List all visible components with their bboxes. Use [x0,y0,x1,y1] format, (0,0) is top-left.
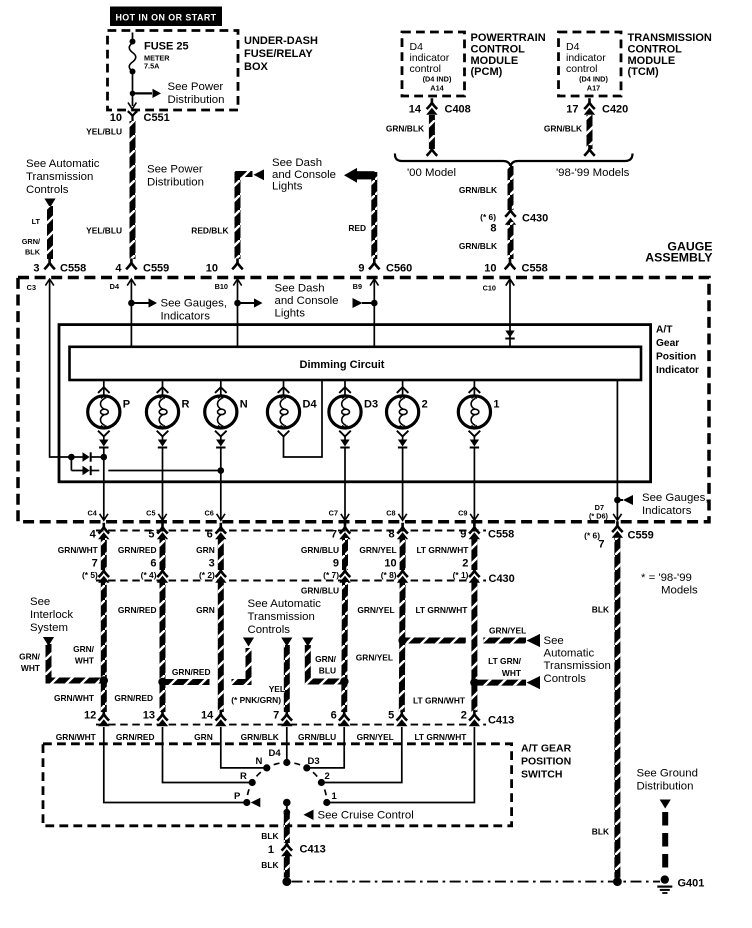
lamp D4 [267,380,317,436]
fuse F25 element [129,43,136,75]
svg-text:RED: RED [348,223,366,233]
label BLK lower [592,827,609,837]
cavity label D7 (* D6) [589,503,609,521]
svg-text:GRN/BLK: GRN/BLK [241,732,279,742]
wire D3 column C430-C413 [341,582,348,712]
svg-text:C558: C558 [488,529,514,541]
svg-text:Position: Position [656,352,696,363]
switch rotor common dot [283,799,291,807]
ground dash-dot line [292,881,661,883]
diode under lamp 2 [398,436,407,520]
wire N column C430-C413 [218,582,224,712]
A/T gear position indicator box [59,325,651,482]
ground symbol G401 [657,875,672,893]
svg-text:CONTROL: CONTROL [471,43,526,55]
svg-text:MODULE: MODULE [628,55,676,67]
svg-text:POWERTRAIN: POWERTRAIN [471,32,546,44]
svg-text:3: 3 [33,263,39,275]
svg-text:B10: B10 [215,282,228,291]
wire B10 to dimming circuit [234,279,241,346]
junction dot overlay P [100,676,108,684]
label GRN/WHT right of interlock wire [73,644,95,666]
svg-text:FUSE 25: FUSE 25 [144,41,189,53]
lamp 2 [387,380,428,436]
svg-text:C558: C558 [60,263,86,275]
svg-text:GRN/BLU: GRN/BLU [298,732,336,742]
svg-text:C5: C5 [146,509,155,518]
wire to R contact [163,727,250,783]
wire LT GRN/BLK to C558 pin 3 [47,206,53,259]
label see automatic transmission controls right [544,635,611,685]
wire GRN/YEL column C430-C413 [399,582,406,712]
svg-text:SWITCH: SWITCH [521,769,562,781]
svg-text:See Dash: See Dash [272,157,322,169]
svg-text:14: 14 [201,710,214,722]
connector line C558 lower [96,530,486,532]
cavity label C5 [146,509,155,518]
svg-text:BOX: BOX [244,61,269,73]
wire BLK C413 to ground junction [284,856,290,878]
label see dash and console lights top [272,157,336,193]
svg-text:(* 1): (* 1) [453,570,469,580]
label GRN/BLK left [386,124,424,134]
svg-text:control: control [566,63,598,75]
svg-text:GRN/RED: GRN/RED [118,605,157,615]
svg-text:(* 8): (* 8) [381,570,397,580]
label 00 Model [407,167,456,179]
label cavity 3 (* 2) [199,558,215,581]
svg-text:and Console: and Console [275,295,339,307]
label G401 [678,878,705,890]
label 98-99 Models [556,167,630,179]
wire LT GRN/WHT column C430-C413 [471,582,478,712]
ground distribution label [637,768,698,793]
label cavity 7 (* 5) [82,558,98,581]
svg-text:GRN/YEL: GRN/YEL [357,732,394,742]
svg-text:GRN/YEL: GRN/YEL [357,605,394,615]
connector C558 cavity 4 [90,523,110,541]
svg-text:9: 9 [333,558,339,570]
label see automatic transmission controls middle [248,598,322,636]
svg-text:Distribution: Distribution [147,177,204,189]
cavity label C10 [483,279,515,292]
connector C559 at gauge border [584,521,654,550]
svg-text:LT GRN/WHT: LT GRN/WHT [414,732,467,742]
svg-text:GRN/RED: GRN/RED [114,693,153,703]
switch contact P [234,791,250,806]
connector C430 glyph [339,566,350,583]
svg-text:D3: D3 [308,756,320,767]
label TRANSMISSION CONTROL MODULE (TCM) [628,32,712,78]
svg-text:2: 2 [462,558,468,570]
svg-text:14: 14 [409,104,422,116]
svg-text:C430: C430 [522,213,548,225]
connector C420 pin 17 [566,98,628,115]
label GRN/WHT below junction [54,693,95,703]
dashed BLK wire to G401 [662,812,668,874]
svg-text:1: 1 [268,844,274,856]
wire RED down to pin 9 [371,172,377,259]
svg-text:7.5A: 7.5A [144,62,160,71]
lamp 1 [458,380,499,436]
svg-text:7: 7 [598,539,604,551]
svg-text:6: 6 [150,558,156,570]
label POWERTRAIN CONTROL MODULE (PCM) [471,32,546,78]
svg-text:7: 7 [273,710,279,722]
wire to 2 contact [325,727,402,783]
svg-text:C559: C559 [143,263,169,275]
label GRN/WHT [58,545,99,555]
svg-text:2: 2 [422,399,428,411]
svg-text:A/T GEAR: A/T GEAR [521,743,572,755]
svg-text:See Automatic: See Automatic [248,598,322,610]
wire C10 to dimming circuit with diode [506,279,514,346]
connector C408 pin 14 [409,98,471,115]
connector C558 pin 10 right [484,259,548,275]
svg-text:(* D6): (* D6) [589,512,609,521]
svg-text:A/T: A/T [656,325,673,336]
wire BLK switch to C413 [284,812,290,843]
connector C413 cavity 12 [84,710,109,727]
svg-text:GRN/BLK: GRN/BLK [459,241,497,251]
see dash and console lights arrow (B10) [238,283,339,320]
svg-text:C4: C4 [87,509,97,518]
label LT GRN/WHT below dot [413,696,466,706]
label GRN/YEL below C430 [357,605,394,615]
svg-text:10: 10 [206,263,218,275]
label RED [348,223,366,233]
svg-text:UNDER-DASH: UNDER-DASH [244,35,318,47]
svg-text:GRN/: GRN/ [22,237,40,246]
label A/T Gear Position Indicator [656,325,699,377]
svg-text:G401: G401 [678,878,705,890]
connector C558 cavity 5 [148,523,168,541]
exit arrows at gauge bottom border [100,514,622,521]
label GRN/BLU at arrow3 [315,654,337,676]
connector C430 in-line top [480,212,548,235]
svg-text:Distribution: Distribution [637,781,694,793]
svg-text:2: 2 [325,771,330,782]
connector C551 [110,111,170,124]
diode under lamp R [158,436,167,520]
svg-text:GRN/YEL: GRN/YEL [359,545,396,555]
lamp P [88,380,130,436]
svg-text:C413: C413 [300,844,326,856]
label Dimming Circuit [300,359,385,371]
wire segment [160,538,166,570]
cavity label C9 [458,509,467,518]
svg-text:Distribution: Distribution [168,94,225,106]
wire segment [218,538,224,570]
svg-text:Indicator: Indicator [656,365,699,376]
label RED/BLK [191,226,228,236]
svg-text:C6: C6 [204,509,213,518]
svg-text:ASSEMBLY: ASSEMBLY [645,251,712,265]
svg-text:D3: D3 [364,399,378,411]
svg-text:LT GRN/WHT: LT GRN/WHT [416,545,469,555]
svg-text:(D4 IND): (D4 IND) [579,75,608,84]
svg-text:12: 12 [84,710,96,722]
svg-text:See Power: See Power [168,81,224,93]
svg-text:YEL/BLU: YEL/BLU [86,226,122,236]
see power distribution arrow [133,81,225,106]
connector C430 glyph [215,566,226,583]
label see automatic transmission controls top-left [26,158,100,196]
svg-text:Indicators: Indicators [161,311,211,323]
svg-text:C10: C10 [483,284,496,293]
label GRN/YEL at branch [489,626,526,636]
switch contact N [256,756,271,772]
ATC arrow 1 [243,638,254,647]
svg-text:GRN/BLK: GRN/BLK [459,185,497,195]
switch contact 2 [318,771,330,786]
svg-text:and Console: and Console [272,169,336,181]
svg-text:GRN: GRN [194,732,213,742]
label GRN below C430 [196,605,215,615]
connector C413 cavity 6 [331,710,350,727]
label LT GRN/WHT at branch [488,656,522,678]
arrow down at fuse box exit [128,103,136,110]
label cavity 6 (* 4) [141,558,157,581]
svg-text:A17: A17 [587,84,600,93]
svg-text:(* 2): (* 2) [199,570,215,580]
wire segment [400,538,406,570]
wire P column C430-C413 [100,582,107,712]
svg-text:Lights: Lights [275,307,306,319]
label GRN/BLU [301,545,339,555]
interlock arrow [43,637,54,646]
powertrain control module box [402,32,465,96]
svg-text:D4: D4 [110,282,120,291]
wire YEL/BLU C551 to C559 pin 4 [130,121,136,259]
svg-text:C558: C558 [522,263,548,275]
connector C413 cavity 2 [461,710,480,727]
svg-text:BLK: BLK [261,860,278,870]
connector C558 cavity 6 [207,523,227,541]
TCM inner label D4 indicator control [566,41,608,93]
connector C559 pin 4 [115,259,169,275]
svg-text:N: N [256,756,263,767]
connector pin 10 B10 [206,259,243,275]
label cavity 9 (* 7) [323,558,339,581]
dimming circuit box [70,347,642,380]
svg-text:B9: B9 [353,282,362,291]
svg-text:9: 9 [460,529,466,541]
svg-text:LT GRN/: LT GRN/ [488,656,522,666]
svg-text:C408: C408 [445,104,471,116]
svg-text:8: 8 [388,529,394,541]
svg-text:See: See [544,635,564,647]
label GAUGE ASSEMBLY [645,239,712,264]
wire segment [471,538,477,570]
wire pin4 to dimming circuit [128,279,135,346]
switch contact arc [247,763,327,803]
svg-text:See Gauges,: See Gauges, [161,298,228,310]
connector C413 cavity 7 [273,710,292,727]
cavity label C6 [204,509,213,518]
connector C558 cavity 9 [460,523,480,541]
connector C558 cavity 7 [331,523,351,541]
wire YEL ATC arrow2 to C413-7 [284,645,290,712]
svg-text:WHT: WHT [502,668,522,678]
arrow from interlock-ATC down [44,199,55,208]
label LT GRN/BLK [22,217,41,257]
wire GRN/RED R junction to ATC arrow 1 [163,648,249,682]
svg-text:(* 5): (* 5) [82,570,98,580]
label cavity 2 (* 1) [453,558,469,581]
svg-text:GRN/WHT: GRN/WHT [54,693,95,703]
label * = 98-99 Models [641,572,698,597]
svg-text:R: R [182,399,190,411]
svg-text:D4: D4 [269,748,282,759]
wire GRN/BLK from TCM [587,115,593,149]
diode at C10 [505,331,514,339]
diode under lamp N [216,436,225,520]
connector C413 pin 1 [268,840,326,857]
svg-text:C430: C430 [489,573,515,585]
svg-text:* = '98-'99: * = '98-'99 [641,572,692,584]
svg-text:See Power: See Power [147,164,203,176]
svg-text:5: 5 [388,710,394,722]
label GRN/YEL [359,545,396,555]
svg-text:7: 7 [331,529,337,541]
svg-text:(TCM): (TCM) [628,66,659,78]
svg-text:GRN/RED: GRN/RED [116,732,155,742]
svg-text:(* 4): (* 4) [141,570,157,580]
svg-text:10: 10 [110,112,122,124]
junction dot overlay R [158,678,166,686]
svg-text:Controls: Controls [26,184,69,196]
svg-text:GRN/: GRN/ [19,652,41,662]
svg-text:6: 6 [207,529,213,541]
connector C430 glyph [157,566,168,583]
connector C430 glyph [98,566,109,583]
see cruise control arrow [304,810,414,822]
junction dot overlay D3 column [340,677,348,685]
wire segment [101,538,107,570]
svg-text:9: 9 [358,263,364,275]
svg-text:P: P [123,399,130,411]
wire RED/BLK pin10 up and left arrow [238,174,253,259]
diode under lamp P [99,436,108,520]
svg-text:4: 4 [115,263,122,275]
wire to P contact [104,727,244,803]
svg-text:See Gauges,: See Gauges, [642,492,709,504]
svg-text:BLK: BLK [25,248,41,257]
connector C430 glyph [397,566,408,583]
lamp R [146,380,189,436]
svg-text:Automatic: Automatic [544,648,595,660]
wire GRN/BLK brace to C430 [508,166,514,210]
svg-text:POSITION: POSITION [521,756,571,768]
label GRN/WHT below C413 [56,732,97,742]
gauge assembly dashed border [18,278,709,522]
wire fuse to C551 with branch [130,72,136,107]
svg-text:HOT IN ON OR START: HOT IN ON OR START [115,12,216,22]
wire dimming to D7 column [614,380,621,519]
label GRN/RED below C430 [118,605,157,615]
svg-text:GRN/YEL: GRN/YEL [356,653,393,663]
svg-text:8: 8 [490,223,496,235]
label FUSE 25 METER 7.5A [144,41,189,71]
svg-text:YEL: YEL [269,684,285,694]
svg-text:GRN/: GRN/ [315,654,337,664]
label BLK upper [592,605,609,615]
A/T gear position switch dashed box [43,744,512,826]
svg-text:(* 6): (* 6) [480,212,496,222]
label YEL (* PNK/GRN) [231,684,285,705]
svg-text:LT: LT [32,217,41,226]
connector C558 cavity 8 [388,523,408,541]
wire segment [342,538,348,570]
svg-text:3: 3 [209,558,215,570]
svg-text:BLU: BLU [319,666,336,676]
connector C430 glyph [469,566,480,583]
svg-text:C7: C7 [329,509,338,518]
svg-text:C9: C9 [458,509,467,518]
svg-text:D4: D4 [303,399,318,411]
svg-text:Indicators: Indicators [642,505,692,517]
svg-text:Interlock: Interlock [30,609,73,621]
svg-text:System: System [30,622,68,634]
svg-text:Controls: Controls [248,624,291,636]
svg-text:5: 5 [148,529,154,541]
wire R column C430-C413 [159,582,166,712]
wire GRN/WHT interlock to P junction [49,644,104,681]
switch common wire down [283,803,290,816]
switch contact D3 [303,756,319,772]
connector C560 pin 9 [358,259,412,275]
svg-text:MODULE: MODULE [471,55,519,67]
connector C413 cavity 5 [388,710,407,727]
svg-text:A14: A14 [430,84,444,93]
svg-text:1: 1 [493,399,499,411]
wire GRN/BLK C430 to C558 pin 10 [508,222,514,259]
connector C413 cavity 14 [201,710,226,727]
cavity label C3 [27,279,54,292]
connector line C413 [96,724,486,726]
svg-text:13: 13 [143,710,155,722]
label GRN [196,545,215,555]
svg-text:CONTROL: CONTROL [628,43,683,55]
label GRN/BLK below C430 [459,241,497,251]
cavity label C7 [329,509,338,518]
svg-text:GRN/WHT: GRN/WHT [56,732,97,742]
svg-text:GRN/BLU: GRN/BLU [301,545,339,555]
svg-text:GRN/YEL: GRN/YEL [489,626,526,636]
ATC arrow 2 [281,638,292,647]
label GRN/RED below C413 [116,732,155,742]
svg-text:7: 7 [92,558,98,570]
label GRN/RED below junction [114,693,153,703]
wire LT GRN/WHT junction to ATC right [474,676,540,689]
label GRN/RED above branch [172,667,211,677]
svg-text:10: 10 [484,263,496,275]
svg-text:'98-'99 Models: '98-'99 Models [556,167,630,179]
svg-text:See: See [30,596,50,608]
label UNDER-DASH FUSE/RELAY BOX [244,35,318,73]
svg-text:C559: C559 [628,530,654,542]
cavity label C4 [87,509,97,518]
switch contact 1 [323,791,337,806]
svg-text:See Cruise Control: See Cruise Control [318,810,414,822]
switch contact D4 [269,748,291,766]
wire ATC arrow3 to D3 column [308,645,345,682]
svg-text:LT GRN/WHT: LT GRN/WHT [413,696,466,706]
label GRN/WHT interlock [19,652,41,674]
label GRN/YEL below C413 [357,732,394,742]
label LT GRN/WHT [416,545,469,555]
